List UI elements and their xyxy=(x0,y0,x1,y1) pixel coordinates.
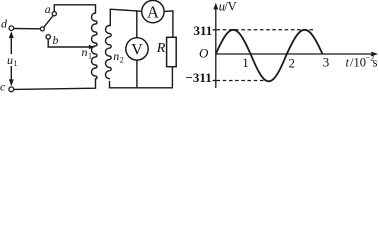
svg-text:311: 311 xyxy=(194,23,213,38)
y axis arrowhead xyxy=(213,3,218,10)
V branch from top rail down to V circle xyxy=(136,11,138,38)
svg-text:1: 1 xyxy=(242,55,249,70)
contact a xyxy=(52,12,56,16)
u1 arrow line xyxy=(10,34,12,85)
voltmeter V xyxy=(126,38,148,60)
wire from b down and right to tap arrow xyxy=(48,39,90,47)
wire from a up to top rail, right, down to primary coil xyxy=(54,5,95,13)
terminal c xyxy=(9,87,14,92)
ammeter A xyxy=(142,0,164,22)
x axis xyxy=(216,53,376,55)
x axis arrowhead xyxy=(371,52,378,57)
svg-text:3: 3 xyxy=(323,54,330,69)
u1 arrowhead down (at c) xyxy=(9,79,14,86)
secondary top lead to meter loop top rail xyxy=(110,9,142,25)
svg-text:/10: /10 xyxy=(350,55,366,69)
secondary bottom lead and bottom rail xyxy=(110,82,173,88)
contact b xyxy=(46,35,50,39)
svg-text:1: 1 xyxy=(14,59,18,68)
tick -311 xyxy=(213,80,216,82)
svg-text:t: t xyxy=(346,55,350,69)
svg-text:/V: /V xyxy=(224,0,237,14)
wire d to switch pivot xyxy=(14,28,40,30)
secondary coil n2 xyxy=(105,26,111,79)
terminal d xyxy=(9,26,14,31)
switch pivot contact xyxy=(40,27,44,31)
u1 arrowhead up (at d) xyxy=(9,31,14,38)
tap arrowhead on b wire xyxy=(89,45,96,49)
top rail from A to right corner, down to R xyxy=(164,11,173,37)
svg-text:b: b xyxy=(53,33,59,47)
switch blade pivot-a xyxy=(44,16,53,28)
dashed +311 level xyxy=(217,29,314,31)
svg-text:O: O xyxy=(199,46,209,61)
R box xyxy=(167,37,177,66)
y axis xyxy=(215,6,217,88)
tick +311 xyxy=(213,29,216,31)
dashed -311 level xyxy=(217,80,264,82)
svg-text:V: V xyxy=(131,41,143,58)
svg-text:u: u xyxy=(7,53,13,67)
svg-text:n: n xyxy=(113,49,119,63)
R bottom lead to bottom rail xyxy=(171,67,173,88)
svg-text:a: a xyxy=(45,2,51,16)
svg-text:2: 2 xyxy=(120,56,124,65)
V bottom lead to bottom rail xyxy=(136,60,138,88)
svg-text:c: c xyxy=(0,80,6,94)
primary bottom lead and bottom-left rail to c xyxy=(14,79,96,89)
svg-text:−311: −311 xyxy=(186,70,212,85)
svg-text:R: R xyxy=(156,41,166,56)
svg-text:2: 2 xyxy=(289,56,296,71)
svg-text:n: n xyxy=(82,45,88,59)
svg-text:d: d xyxy=(1,17,8,31)
svg-text:1: 1 xyxy=(88,52,92,61)
svg-text:A: A xyxy=(147,2,159,21)
sine curve u(t) xyxy=(216,30,323,82)
svg-text:s: s xyxy=(373,55,378,69)
label u1 xyxy=(6,53,18,68)
primary coil n1 xyxy=(92,13,98,79)
